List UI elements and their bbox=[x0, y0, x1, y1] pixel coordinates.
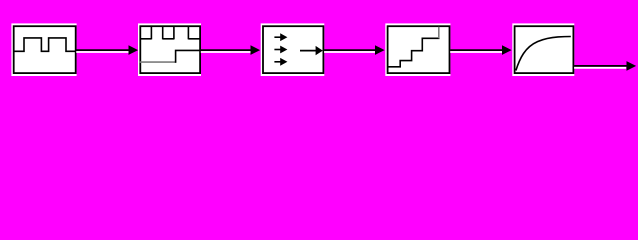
block B2 (sample and hold) bbox=[138, 23, 201, 76]
wire W5 (B5 output) bbox=[574, 61, 636, 71]
clock pulses icon in B2 bbox=[140, 27, 200, 40]
small arrow 3 in B3 bbox=[274, 58, 287, 66]
block B5 (filter / integrator) bbox=[512, 23, 574, 76]
wire W1 (B1 to B2) bbox=[76, 45, 138, 55]
block B1 (pulse source) bbox=[11, 23, 76, 76]
exponential curve icon in B5 bbox=[516, 37, 571, 71]
wire W2 (B2 to B3) bbox=[201, 45, 260, 55]
staircase gray riser in B4 bbox=[438, 27, 440, 39]
small arrow 2 in B3 bbox=[274, 46, 287, 54]
wire W4 (B4 to B5) bbox=[450, 45, 511, 55]
small arrow 1 in B3 bbox=[274, 33, 287, 41]
staircase icon in B4 bbox=[388, 38, 439, 67]
square-wave icon in B1 bbox=[15, 38, 76, 51]
step signal black segment in B2 bbox=[176, 50, 200, 62]
block B3 (distributor) bbox=[261, 23, 325, 76]
long arrow in B3 bbox=[300, 46, 323, 55]
step signal gray segment in B2 bbox=[140, 61, 176, 63]
block B4 (quantizer staircase) bbox=[385, 23, 450, 76]
wire W3 (B3 to B4) bbox=[324, 45, 385, 55]
